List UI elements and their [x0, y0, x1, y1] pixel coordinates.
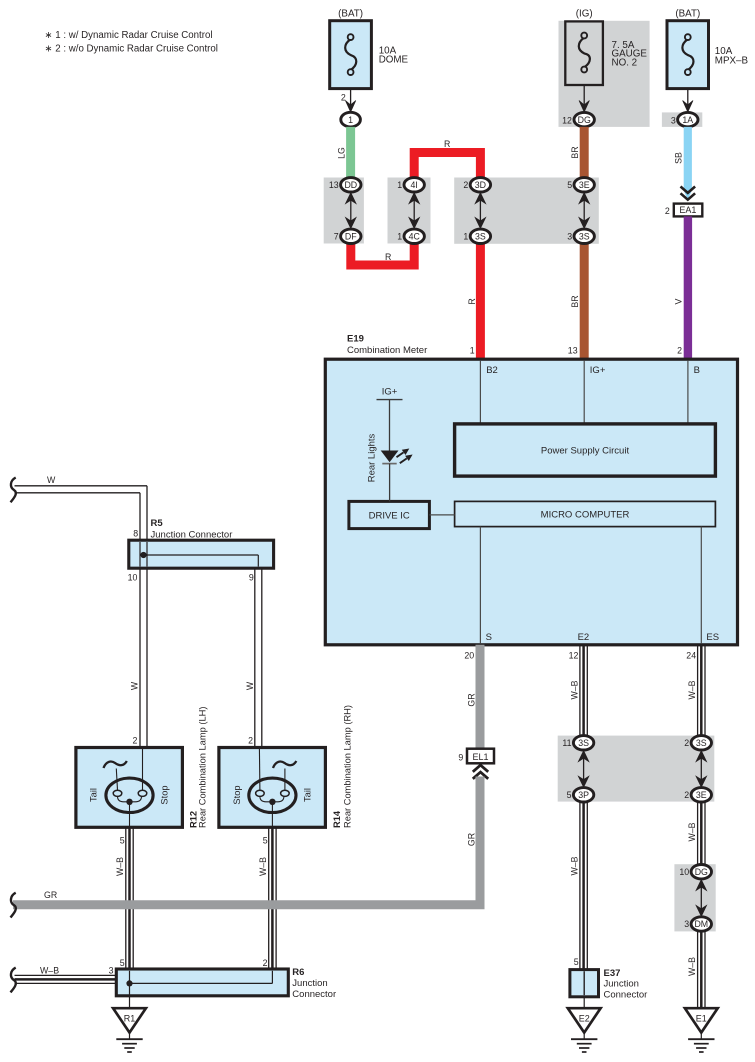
svg-text:3P: 3P: [578, 790, 589, 800]
connector 3S pin 1: [470, 229, 490, 243]
svg-text:W–B: W–B: [115, 857, 125, 876]
wire W from body harness to R5 pin 8: [11, 478, 16, 503]
svg-text:2: 2: [263, 958, 268, 968]
svg-text:GR: GR: [466, 693, 476, 706]
connector DG pin 10: [691, 865, 711, 879]
link drive ic to micro computer: [429, 514, 454, 516]
wire fuse MPX-B to connector 1A: [687, 89, 689, 110]
svg-text:W–B: W–B: [687, 822, 697, 841]
wire W-B from R12 pin 5 to R6 pin 5: [125, 827, 127, 969]
wire fuse GAUGE to connector DG: [583, 85, 585, 110]
svg-text:Combination Meter: Combination Meter: [347, 345, 427, 356]
svg-text:MPX–B: MPX–B: [715, 55, 749, 66]
svg-text:ES: ES: [706, 632, 719, 643]
svg-text:8: 8: [133, 529, 138, 539]
rear combination lamp RH R14: [219, 748, 326, 828]
svg-text:W–B: W–B: [569, 680, 579, 699]
svg-text:W–B: W–B: [687, 957, 697, 976]
svg-text:20: 20: [464, 651, 474, 661]
svg-text:7: 7: [334, 232, 339, 242]
svg-text:1: 1: [348, 115, 353, 125]
svg-text:2: 2: [684, 790, 689, 800]
svg-text:3E: 3E: [579, 180, 590, 190]
R14 bulb: [249, 778, 296, 812]
svg-text:R6: R6: [292, 967, 304, 978]
svg-text:BR: BR: [570, 295, 580, 307]
svg-text:4C: 4C: [409, 232, 421, 242]
svg-text:B: B: [694, 365, 700, 376]
rear combination lamp LH R12: [76, 748, 182, 828]
junction arrows 3S-3E: [700, 758, 702, 780]
wire W-B from 3P to E37 pin 5: [579, 802, 581, 970]
svg-text:13: 13: [568, 346, 578, 356]
chevrons into EA1: [681, 187, 696, 193]
svg-text:∗ 2 : w/o Dynamic Radar Cruise: ∗ 2 : w/o Dynamic Radar Cruise Control: [45, 44, 218, 55]
wire R from 4I to 3D: [414, 153, 480, 181]
svg-text:1: 1: [470, 346, 475, 356]
svg-text:12: 12: [562, 115, 572, 125]
connector 1: [341, 112, 361, 127]
connector 3D pin 2: [470, 178, 490, 192]
svg-text:Connector: Connector: [604, 989, 648, 1000]
wire R from 3S to combination meter pin B2: [476, 241, 485, 360]
svg-text:2: 2: [665, 206, 670, 216]
svg-text:Junction: Junction: [604, 979, 639, 990]
connector 3S pin 11: [573, 736, 593, 750]
wire GR from EL1 down and left to body harness: [13, 777, 480, 905]
gray box behind connectors DD/DF: [324, 178, 364, 244]
connector 3S pin 2: [691, 736, 711, 750]
svg-text:R: R: [467, 298, 477, 304]
gray box behind connectors 3S/3P and 3S/3E: [558, 736, 715, 802]
svg-text:NO. 2: NO. 2: [612, 57, 638, 68]
wire fuse DOME to connector 1: [350, 89, 352, 110]
svg-text:DD: DD: [344, 180, 357, 190]
svg-text:DOME: DOME: [379, 55, 409, 66]
R14 pin2 internal wire: [258, 748, 261, 791]
svg-text:4I: 4I: [411, 180, 418, 190]
wire SB from 1A to EA1: [684, 127, 692, 191]
svg-text:Rear Combination Lamp (LH): Rear Combination Lamp (LH): [198, 707, 208, 828]
wire W-B from 3E to DG: [697, 802, 699, 865]
wire R6 to ground R1: [129, 983, 131, 1008]
svg-text:R: R: [444, 139, 450, 149]
svg-text:1: 1: [397, 232, 402, 242]
svg-text:DF: DF: [345, 232, 357, 242]
svg-text:Rear Combination Lamp (RH): Rear Combination Lamp (RH): [343, 705, 353, 828]
svg-text:24: 24: [686, 651, 696, 661]
svg-text:LG: LG: [336, 147, 346, 159]
svg-text:Tail: Tail: [89, 788, 99, 802]
svg-text:5: 5: [120, 836, 125, 846]
svg-text:3E: 3E: [696, 790, 707, 800]
connector DM pin 3: [691, 917, 711, 931]
svg-text:BR: BR: [570, 146, 580, 158]
R12 bulb: [106, 778, 153, 812]
svg-text:13: 13: [329, 180, 339, 190]
svg-text:1: 1: [463, 232, 468, 242]
svg-text:R1: R1: [124, 1013, 136, 1023]
svg-text:GR: GR: [44, 890, 57, 900]
ground R1: [113, 1008, 146, 1032]
svg-text:2: 2: [341, 93, 346, 103]
svg-text:3S: 3S: [579, 232, 590, 242]
R14 tilde stop feed: [273, 761, 296, 768]
svg-text:R5: R5: [151, 518, 164, 529]
svg-text:EA1: EA1: [679, 205, 696, 215]
svg-text:IG+: IG+: [382, 387, 398, 398]
ground E1: [685, 1008, 718, 1032]
wire GR from meter pin S to EL1: [476, 645, 485, 749]
R12 pin5 internal wire: [129, 802, 131, 827]
svg-text:10: 10: [128, 572, 138, 582]
connector EL1 pin 9: [467, 749, 494, 764]
R6 internal wires: [129, 971, 131, 984]
wire W-B from DM to ground E1: [697, 931, 699, 1008]
svg-text:3: 3: [684, 919, 689, 929]
R12 tilde stop feed: [104, 761, 127, 768]
svg-text:3S: 3S: [578, 738, 589, 748]
junction connector E37: [570, 970, 599, 997]
connector 3E pin 2: [691, 788, 711, 802]
svg-text:W: W: [47, 475, 56, 485]
wire W from R5 pin 10 to R12 pin 2: [139, 568, 141, 747]
svg-text:2: 2: [463, 180, 468, 190]
svg-text:5: 5: [120, 958, 125, 968]
connector 4C pin 1: [404, 229, 424, 243]
svg-text:5: 5: [263, 836, 268, 846]
internal line micro computer to S: [479, 527, 481, 644]
gray box behind fuse GAUGE NO.2 and connector DG: [559, 21, 650, 127]
svg-text:E2: E2: [579, 1013, 590, 1023]
svg-text:5: 5: [574, 957, 579, 967]
fuse 10A MPX-B (BAT): [667, 21, 709, 89]
junction connector R6: [116, 969, 288, 996]
svg-text:10: 10: [679, 867, 689, 877]
wire W-B from body harness to R6 pin 3: [11, 968, 16, 993]
internal line micro computer to ES: [700, 527, 702, 644]
svg-text:W: W: [130, 681, 140, 690]
svg-text:5: 5: [567, 790, 572, 800]
junction arrows 3D-3S: [479, 200, 481, 221]
LED rear lights indicator: [381, 451, 399, 463]
svg-text:Power Supply Circuit: Power Supply Circuit: [541, 445, 630, 456]
fuse 10A DOME (BAT): [330, 21, 372, 89]
svg-text:12: 12: [569, 651, 579, 661]
svg-text:E1: E1: [696, 1013, 707, 1023]
svg-text:∗ 1 : w/ Dynamic Radar Cruise: ∗ 1 : w/ Dynamic Radar Cruise Control: [45, 30, 213, 41]
gray box behind connectors DG/DM: [674, 864, 715, 931]
svg-text:R: R: [385, 252, 391, 262]
wire W-B from R14 pin 5 to R6 pin 2: [268, 827, 270, 969]
power supply circuit box: [455, 424, 716, 476]
svg-text:Stop: Stop: [232, 785, 242, 804]
junction arrows DG-DM: [700, 887, 702, 909]
svg-text:DG: DG: [578, 115, 591, 125]
combination meter E19 box: [325, 359, 737, 645]
drive ic box: [349, 501, 430, 528]
wire BR from 3S to combination meter pin IG+: [580, 243, 589, 359]
svg-text:Tail: Tail: [303, 788, 313, 802]
wire LG from connector 1 to DD: [346, 127, 355, 178]
svg-text:3S: 3S: [475, 232, 486, 242]
svg-text:W–B: W–B: [40, 966, 59, 976]
connector DD pin 13: [341, 178, 361, 192]
gray box behind connectors 4I/4C: [388, 178, 431, 244]
svg-text:(BAT): (BAT): [675, 9, 700, 20]
connector 4I pin 1: [404, 178, 424, 192]
svg-text:2: 2: [132, 736, 137, 746]
wire E37 to ground E2: [583, 997, 585, 1008]
svg-text:DRIVE IC: DRIVE IC: [369, 510, 410, 521]
svg-text:Junction: Junction: [292, 978, 327, 989]
svg-text:9: 9: [249, 572, 254, 582]
internal line B to power supply circuit: [687, 361, 689, 424]
micro computer box: [455, 501, 716, 526]
gray box behind connector 1A: [662, 112, 702, 127]
R14 pin5 internal wire: [271, 802, 273, 827]
svg-text:Connector: Connector: [292, 989, 336, 1000]
svg-text:9: 9: [458, 752, 463, 762]
svg-text:E2: E2: [578, 632, 590, 643]
svg-text:2: 2: [248, 736, 253, 746]
connector DG pin 12: [574, 112, 594, 126]
svg-text:R14: R14: [332, 810, 342, 828]
junction arrows DD-DF: [350, 200, 352, 221]
connector 3P pin 5: [573, 788, 593, 802]
connector EA1 pin 2: [674, 204, 703, 217]
gray box behind connectors 3D/3S and 3E/3S: [454, 178, 599, 244]
svg-text:DG: DG: [695, 867, 708, 877]
svg-text:MICRO COMPUTER: MICRO COMPUTER: [541, 509, 630, 520]
wire R from DF to 4C: [351, 241, 414, 265]
svg-text:B2: B2: [486, 365, 498, 376]
svg-text:E19: E19: [347, 334, 364, 345]
svg-text:Junction Connector: Junction Connector: [151, 529, 233, 540]
svg-text:(BAT): (BAT): [338, 9, 363, 20]
internal line IG+ to power supply circuit: [583, 361, 585, 424]
svg-text:3: 3: [109, 966, 114, 976]
connector 1A pin 3: [678, 112, 698, 126]
internal line B2 to power supply circuit: [479, 361, 481, 424]
junction arrows 3E-3S: [583, 200, 585, 221]
svg-text:W–B: W–B: [569, 856, 579, 875]
svg-text:2: 2: [684, 738, 689, 748]
svg-text:W–B: W–B: [258, 857, 268, 876]
wire W-B from meter E2 to 3S: [579, 645, 581, 736]
fuse 7.5A GAUGE NO.2 (IG): [565, 21, 603, 85]
svg-text:Rear Lights: Rear Lights: [367, 433, 378, 482]
svg-text:V: V: [674, 298, 684, 304]
wire W-B from meter ES to 3S: [697, 645, 699, 736]
svg-text:S: S: [486, 632, 492, 643]
connector 3E pin 5: [574, 178, 594, 192]
svg-text:DM: DM: [694, 919, 708, 929]
junction arrows 3S-3P: [583, 758, 585, 780]
R12 pin2 internal wire: [142, 748, 144, 791]
connector 3S pin 3: [574, 229, 594, 243]
svg-text:IG+: IG+: [590, 365, 606, 376]
svg-text:W–B: W–B: [687, 680, 697, 699]
svg-text:1: 1: [397, 180, 402, 190]
svg-text:3: 3: [567, 232, 572, 242]
svg-text:E37: E37: [604, 968, 621, 979]
svg-text:W: W: [245, 681, 255, 690]
junction arrows 4I-4C: [413, 200, 415, 221]
wire V from EA1 to combination meter pin B: [684, 216, 692, 359]
chevrons below EL1: [473, 765, 488, 772]
svg-text:1A: 1A: [682, 115, 693, 125]
junction connector R5: [129, 540, 274, 568]
svg-text:2: 2: [677, 346, 682, 356]
wire BR from DG to 3E: [580, 127, 589, 178]
svg-text:3S: 3S: [696, 738, 707, 748]
wire W from R5 pin 9 to R14 pin 2: [254, 568, 256, 747]
svg-text:3: 3: [671, 115, 676, 125]
connector DF pin 7: [341, 229, 361, 243]
svg-text:11: 11: [562, 738, 571, 748]
svg-text:3D: 3D: [475, 180, 486, 190]
svg-text:5: 5: [567, 180, 572, 190]
svg-text:SB: SB: [674, 152, 684, 164]
svg-text:(IG): (IG): [576, 9, 593, 20]
svg-text:Stop: Stop: [160, 785, 170, 804]
ground E2: [568, 1008, 601, 1032]
R5 internal wires: [139, 542, 141, 567]
svg-text:EL1: EL1: [472, 752, 488, 762]
svg-text:GR: GR: [466, 833, 476, 846]
